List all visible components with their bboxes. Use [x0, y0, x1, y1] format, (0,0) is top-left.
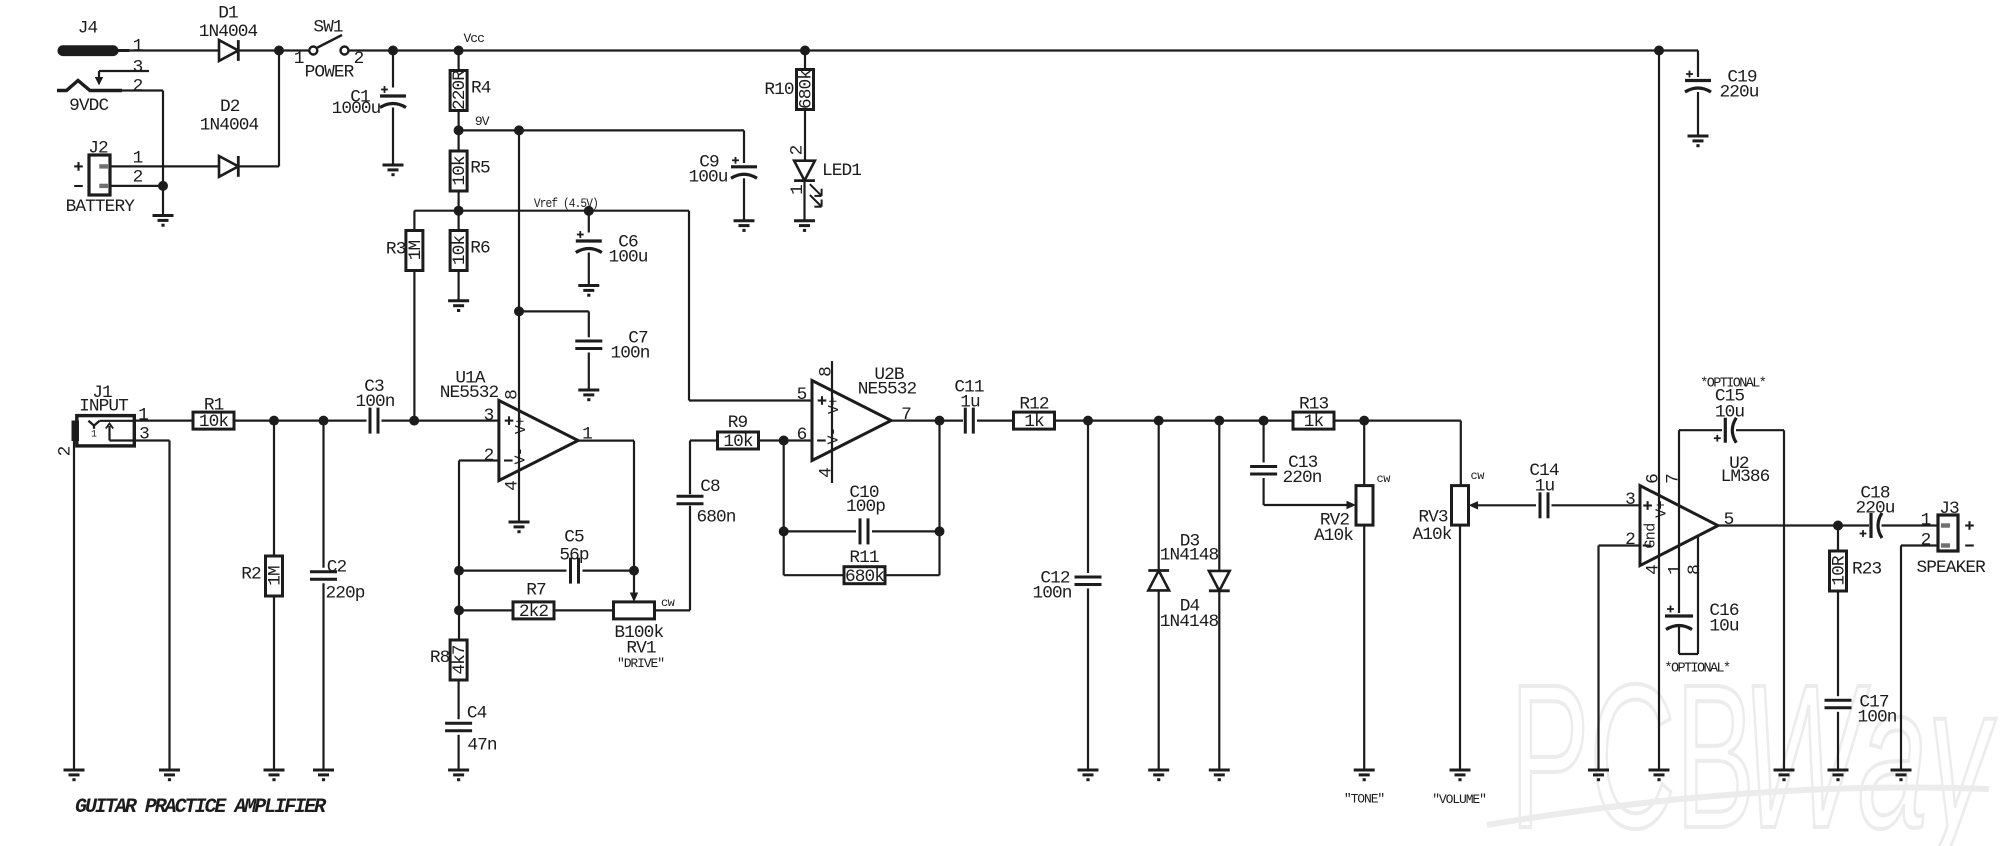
resistor R7 2k2 — [459, 581, 554, 622]
ground J3 pin2 — [1891, 770, 1912, 780]
svg-text:A10k: A10k — [1412, 525, 1451, 545]
resistor R4 220R — [450, 51, 491, 111]
potentiometer RV2 A10k TONE — [1314, 421, 1391, 546]
svg-text:6: 6 — [1644, 474, 1664, 484]
ground RV2 TONE — [1344, 770, 1385, 807]
wire U1A pin2 feedback down — [459, 461, 499, 611]
ground C4 — [448, 770, 469, 780]
junction U2B pin6 node — [779, 436, 789, 446]
svg-text:1000u: 1000u — [332, 99, 381, 119]
wire R3 to input node — [413, 271, 415, 421]
wire C11 to R12 — [977, 420, 1014, 422]
svg-text:7: 7 — [1664, 474, 1684, 484]
capacitor C15 10u bypass *OPTIONAL* — [1679, 376, 1784, 770]
LED LED1 — [788, 145, 862, 206]
svg-text:*OPTIONAL*: *OPTIONAL* — [1664, 661, 1730, 676]
svg-text:8: 8 — [817, 367, 837, 377]
junction C2 top — [319, 416, 329, 426]
resistor R2 1M — [241, 421, 285, 596]
svg-text:POWER: POWER — [305, 63, 355, 83]
junction RV2 top — [1359, 416, 1369, 426]
wire R5 to Vref — [458, 191, 460, 231]
resistor R12 1k — [1014, 395, 1055, 433]
diode D2 1N4004 — [200, 97, 259, 177]
wire R4 to R5, 9V node — [458, 111, 460, 152]
ground C17 — [1828, 770, 1849, 780]
connector J1 INPUT jack — [56, 383, 149, 456]
ground R6 — [448, 301, 469, 311]
ground C7 — [578, 390, 599, 400]
junction R10 top — [800, 46, 810, 56]
svg-text:9V: 9V — [475, 114, 490, 129]
capacitor C7 100n — [519, 311, 650, 390]
wire R8 to C4 — [458, 680, 460, 719]
capacitor C5 56p — [459, 528, 634, 584]
svg-text:4: 4 — [1644, 565, 1664, 575]
svg-text:2: 2 — [1921, 531, 1931, 551]
svg-text:5: 5 — [797, 385, 807, 405]
ground C9 — [734, 221, 755, 231]
svg-text:C5: C5 — [564, 528, 584, 548]
resistor R5 10k — [450, 151, 490, 191]
resistor R23 10R zobel — [1830, 526, 1882, 592]
junction C13/R13 left — [1259, 416, 1269, 426]
capacitor C14 1u — [1529, 461, 1559, 518]
svg-text:1k: 1k — [1024, 412, 1044, 432]
capacitor C3 100n — [355, 377, 394, 434]
junction C12 top — [1083, 416, 1093, 426]
capacitor C10 100p — [784, 483, 940, 544]
svg-text:"VOLUME": "VOLUME" — [1432, 792, 1486, 807]
resistor R8 4k7 — [430, 610, 470, 680]
svg-text:4k7: 4k7 — [450, 645, 470, 675]
ground C2 — [313, 770, 334, 780]
wire R13 to RV3 — [1334, 421, 1461, 486]
ground D4 — [1209, 770, 1230, 780]
svg-text:1N4148: 1N4148 — [1160, 546, 1219, 566]
svg-text:1u: 1u — [960, 392, 980, 412]
svg-text:R6: R6 — [470, 239, 490, 259]
svg-text:cw: cw — [661, 596, 676, 610]
net label Vref (4.5V) — [534, 196, 598, 211]
junction R7/R8 node — [454, 605, 464, 615]
wire J2 pin1 to D2 — [110, 165, 219, 167]
svg-text:5: 5 — [1724, 510, 1734, 530]
wire R7 to RV1 — [554, 609, 614, 611]
svg-text:7: 7 — [901, 405, 911, 425]
junction C5 left — [454, 566, 464, 576]
svg-text:C2: C2 — [327, 558, 347, 578]
ground C12 — [1078, 770, 1099, 780]
svg-text:100u: 100u — [688, 168, 727, 188]
op-amp U1A NE5532 — [440, 369, 592, 491]
svg-text:100n: 100n — [1857, 708, 1896, 728]
svg-text:220p: 220p — [325, 584, 364, 604]
svg-text:BATTERY: BATTERY — [66, 197, 136, 217]
svg-text:100n: 100n — [355, 392, 394, 412]
svg-text:LM386: LM386 — [1721, 467, 1770, 487]
resistor R3 1M — [386, 211, 426, 271]
ground LED1 — [794, 221, 815, 231]
svg-text:1M: 1M — [266, 566, 286, 586]
wire D2 cathode up to rail — [238, 51, 279, 167]
svg-text:1: 1 — [294, 49, 304, 69]
junction U2B output node — [935, 416, 945, 426]
junction output node — [1833, 521, 1843, 531]
svg-text:R4: R4 — [471, 79, 491, 99]
capacitor C16 10u gain *OPTIONAL* — [1664, 601, 1738, 677]
resistor R10 680k — [764, 51, 816, 110]
svg-text:J4: J4 — [78, 19, 98, 39]
svg-text:2: 2 — [1625, 530, 1635, 550]
junction R4 top — [454, 46, 464, 56]
svg-text:V-: V- — [513, 448, 530, 465]
svg-text:6: 6 — [797, 425, 807, 445]
svg-text:680n: 680n — [696, 508, 735, 528]
svg-text:Vcc: Vcc — [463, 31, 484, 46]
svg-text:cw: cw — [1471, 469, 1486, 483]
wire R12 to R13 — [1055, 420, 1294, 422]
svg-text:LED1: LED1 — [822, 161, 861, 181]
net label 9V — [475, 114, 490, 129]
junction C5 right / RV1 wiper — [629, 566, 639, 576]
wire R2 to ground — [273, 596, 275, 770]
svg-text:1: 1 — [91, 430, 97, 441]
capacitor C8 680n — [677, 477, 736, 527]
svg-text:3: 3 — [1625, 490, 1635, 510]
wire U1A pin4 to ground — [518, 481, 520, 523]
resistor R11 680k — [784, 548, 940, 587]
title GUITAR PRACTICE AMPLIFIER — [75, 796, 327, 819]
ground C15 — [1774, 770, 1795, 780]
wire Vref rail to U2B pin5 — [414, 211, 812, 401]
capacitor C18 220u — [1855, 484, 1894, 538]
svg-text:10u: 10u — [1709, 616, 1739, 636]
svg-text:2: 2 — [484, 446, 494, 466]
diode D1 1N4004 — [199, 4, 258, 61]
junction D1/D2 node — [274, 46, 284, 56]
ground U1A pin4 — [509, 522, 530, 532]
svg-text:SPEAKER: SPEAKER — [1916, 558, 1986, 578]
ground C1 — [383, 165, 404, 175]
svg-text:9VDC: 9VDC — [69, 96, 108, 116]
svg-text:1k: 1k — [1304, 412, 1324, 432]
svg-text:R10: R10 — [764, 80, 794, 100]
wire RV1 cw through C8 to R9 — [655, 441, 719, 611]
capacitor C9 100u — [688, 153, 757, 221]
resistor R1 10k — [193, 396, 234, 433]
wire J1 pin1 to R1 — [134, 420, 193, 422]
svg-text:C4: C4 — [467, 704, 487, 724]
wire C13 to RV2 wiper — [1264, 501, 1356, 509]
svg-text:Gnd: Gnd — [1643, 523, 1660, 548]
capacitor C12 100n — [1032, 421, 1101, 770]
svg-text:1: 1 — [1921, 511, 1931, 531]
svg-text:680k: 680k — [845, 567, 884, 587]
wire D1 cathode to SW1 — [238, 49, 309, 51]
svg-text:R5: R5 — [470, 159, 490, 179]
svg-text:"TONE": "TONE" — [1344, 792, 1385, 807]
PCBWay watermark (decorative) — [1487, 642, 1996, 846]
capacitor C19 220u — [1685, 51, 1759, 137]
ground D3 — [1148, 770, 1169, 780]
ground U2 pin4 — [1649, 770, 1670, 780]
svg-text:"DRIVE": "DRIVE" — [617, 656, 664, 671]
svg-text:NE5532: NE5532 — [440, 383, 499, 403]
junction Vref node — [454, 206, 464, 216]
svg-text:2k2: 2k2 — [519, 602, 549, 622]
wire RV2 to ground — [1363, 525, 1365, 770]
junction D3 top — [1154, 416, 1164, 426]
ground C19 — [1688, 136, 1709, 146]
svg-text:1: 1 — [133, 37, 143, 57]
capacitor C1 1000u — [332, 51, 406, 166]
svg-text:R2: R2 — [241, 565, 261, 585]
junction C7 tap — [514, 306, 524, 316]
svg-text:R8: R8 — [430, 648, 450, 668]
potentiometer RV3 A10k VOLUME — [1412, 469, 1485, 545]
ground RV3 VOLUME — [1432, 770, 1486, 807]
junction 9V node — [454, 125, 524, 135]
svg-text:1N4148: 1N4148 — [1160, 612, 1219, 632]
svg-text:100u: 100u — [608, 248, 647, 268]
wire RV3 wiper to C14 — [1469, 501, 1537, 509]
ground U2 pin2 — [1588, 770, 1609, 780]
svg-text:2: 2 — [133, 168, 143, 188]
svg-text:1M: 1M — [406, 241, 426, 261]
svg-text:cw: cw — [1377, 472, 1392, 486]
resistor R6 10k — [450, 231, 490, 271]
junction Vcc right — [1654, 46, 1664, 56]
wire RV3 to ground — [1459, 525, 1461, 770]
wire R1 to C3 — [234, 420, 367, 422]
wire R6 to ground — [458, 271, 460, 301]
wire 9V column to U1A pin8 — [518, 130, 520, 400]
svg-text:Way: Way — [1742, 642, 1996, 846]
svg-text:R7: R7 — [526, 581, 546, 601]
svg-text:8: 8 — [503, 390, 523, 400]
svg-text:10k: 10k — [723, 432, 753, 452]
diode D3 1N4148 — [1148, 421, 1218, 770]
svg-text:SW1: SW1 — [313, 18, 343, 38]
svg-text:100p: 100p — [846, 497, 885, 517]
wire LED1 to ground — [803, 181, 805, 221]
wire J1 pin2 sleeve to ground — [73, 441, 75, 770]
wire R9 to U2B pin6 — [759, 439, 813, 441]
svg-text:220u: 220u — [1855, 499, 1894, 519]
svg-text:2: 2 — [354, 49, 364, 69]
svg-text:10k: 10k — [450, 156, 470, 186]
svg-text:1N4004: 1N4004 — [199, 22, 258, 42]
wire J3 pin2 to ground — [1901, 546, 1938, 771]
wire R10 to LED1 — [804, 110, 806, 161]
resistor R13 1k — [1293, 395, 1334, 433]
op-amp U2B NE5532 — [797, 361, 917, 483]
connector J4 (DC barrel jack) — [57, 19, 149, 117]
svg-text:INPUT: INPUT — [79, 397, 128, 417]
resistor R9 10k — [718, 413, 759, 452]
svg-text:V+: V+ — [513, 417, 530, 434]
capacitor C4 47n — [445, 704, 497, 771]
junction D4 top — [1214, 416, 1224, 426]
junction C10 right — [935, 526, 945, 536]
svg-text:D2: D2 — [220, 97, 240, 117]
junction C6 top — [584, 206, 594, 216]
svg-text:A10k: A10k — [1314, 526, 1353, 546]
wire Vcc rail — [348, 49, 1698, 51]
capacitor C2 220p — [310, 421, 365, 770]
svg-text:J3: J3 — [1939, 499, 1959, 519]
junction C1 top — [388, 46, 398, 56]
wire J4 sleeve / J2 pin2 to ground — [110, 91, 163, 216]
capacitor C17 100n — [1825, 693, 1897, 770]
wire U1A output down — [578, 441, 634, 571]
junction R2 top — [269, 416, 279, 426]
ground J1 pin2 — [64, 770, 85, 780]
svg-text:J2: J2 — [88, 139, 108, 159]
svg-text:V-: V- — [826, 428, 843, 445]
capacitor C6 100u — [576, 211, 648, 286]
ground J1 pin3 — [159, 770, 180, 780]
junction C10 left — [779, 526, 789, 536]
svg-text:R3: R3 — [386, 240, 406, 260]
svg-text:8: 8 — [1685, 565, 1705, 575]
svg-text:220R: 220R — [450, 70, 470, 110]
svg-text:GUITAR PRACTICE AMPLIFIER: GUITAR PRACTICE AMPLIFIER — [75, 796, 327, 819]
svg-text:47n: 47n — [467, 736, 497, 756]
svg-text:D1: D1 — [218, 4, 238, 24]
svg-text:10u: 10u — [1715, 403, 1745, 423]
diode D4 1N4148 — [1160, 421, 1230, 770]
wire 9V to C9 — [459, 130, 744, 163]
svg-text:100n: 100n — [1032, 584, 1071, 604]
wire J4 pin1 to D1 — [130, 49, 219, 51]
svg-text:1: 1 — [1666, 565, 1686, 575]
net label Vcc — [463, 31, 484, 46]
wire C18 to J3 — [1882, 524, 1939, 526]
connector J3 SPEAKER — [1916, 499, 1986, 578]
wire J1 pin3 to ground — [134, 441, 169, 771]
svg-text:V+: V+ — [826, 397, 843, 414]
svg-text:1: 1 — [138, 406, 148, 426]
wire C3 to U1A pin3 — [382, 420, 499, 422]
svg-text:R12: R12 — [1019, 395, 1049, 415]
potentiometer RV1 B100k DRIVE — [614, 571, 676, 672]
svg-text:R1: R1 — [204, 396, 224, 416]
svg-text:100n: 100n — [610, 344, 649, 364]
wire R23 to C17 — [1837, 590, 1839, 696]
svg-text:10k: 10k — [450, 236, 470, 266]
ground battery — [153, 216, 174, 226]
amplifier U2 LM386 — [1625, 51, 1770, 771]
svg-text:1u: 1u — [1535, 477, 1555, 497]
wire C14 to U2 pin3 — [1552, 504, 1641, 506]
svg-text:R13: R13 — [1299, 395, 1329, 415]
svg-text:C8: C8 — [700, 477, 720, 497]
wire U2 output — [1718, 524, 1869, 526]
capacitor C11 1u — [954, 377, 984, 433]
svg-text:3: 3 — [133, 58, 143, 78]
svg-text:220n: 220n — [1282, 468, 1321, 488]
junction R3 bottom / input node — [409, 416, 419, 426]
svg-text:680k: 680k — [797, 70, 817, 109]
connector J2 BATTERY — [66, 139, 143, 218]
capacitor C13 220n — [1250, 421, 1322, 505]
svg-text:3: 3 — [484, 406, 494, 426]
ground R2 — [264, 770, 285, 780]
svg-text:1N4004: 1N4004 — [200, 116, 259, 136]
svg-text:2: 2 — [788, 145, 808, 155]
wire U2B output — [891, 420, 963, 422]
svg-text:4: 4 — [817, 468, 837, 478]
ground C6 — [578, 286, 599, 296]
svg-text:2: 2 — [56, 446, 76, 456]
svg-text:V+: V+ — [1654, 501, 1671, 518]
svg-text:R9: R9 — [728, 413, 748, 433]
svg-text:R11: R11 — [849, 548, 879, 568]
svg-text:NE5532: NE5532 — [858, 380, 917, 400]
wire U2 pin2 to ground — [1599, 546, 1641, 771]
junction battery negative — [158, 181, 168, 191]
svg-text:220u: 220u — [1719, 83, 1758, 103]
svg-text:10R: 10R — [1830, 555, 1850, 586]
switch SW1 POWER — [294, 18, 364, 83]
svg-text:R23: R23 — [1852, 560, 1882, 580]
wire U2B feedback columns — [784, 421, 940, 576]
svg-text:2: 2 — [133, 77, 143, 97]
svg-text:56p: 56p — [559, 546, 589, 566]
